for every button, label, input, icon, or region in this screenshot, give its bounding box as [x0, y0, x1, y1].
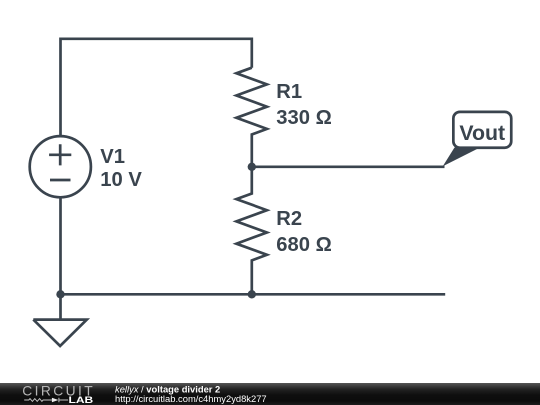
svg-text:10 V: 10 V: [100, 169, 142, 191]
logo circuit glyph: resistor squiggle and diode: [24, 398, 68, 403]
resistor R1 (zigzag): [236, 68, 267, 167]
logo diode triangle: [52, 398, 59, 403]
node junction dot (R2 bottom / rail): [248, 290, 256, 298]
node A junction dot (R1/R2/Vout): [248, 163, 256, 171]
svg-text:R1: R1: [276, 81, 302, 103]
svg-text:V1: V1: [100, 146, 125, 168]
svg-text:680 Ω: 680 Ω: [276, 234, 331, 256]
wire: bottom horizontal rail: [61, 293, 446, 296]
wire: V1 top terminal up, across the top, down to R1: [61, 39, 252, 137]
svg-text:http://circuitlab.com/c4hmy2yd: http://circuitlab.com/c4hmy2yd8k277: [115, 393, 267, 404]
voltage source V1 (circle body): [30, 136, 91, 197]
wire: middle horizontal from node A to Vout flag: [252, 165, 445, 168]
logo word LAB: [69, 395, 94, 405]
footer bar: [0, 383, 540, 405]
ground symbol: [33, 294, 87, 346]
svg-text:330 Ω: 330 Ω: [276, 107, 331, 129]
svg-text:R2: R2: [276, 208, 302, 230]
svg-text:LAB: LAB: [69, 395, 94, 405]
V1 plus sign: [49, 144, 71, 165]
Vout flag pointer tail: [443, 148, 480, 167]
resistor R2 (zigzag): [236, 167, 267, 294]
wire: left vertical from V1 bottom terminal to bottom rail: [59, 197, 62, 294]
node junction dot (V1 bottom / ground): [56, 290, 64, 298]
V1 minus sign: [50, 179, 71, 182]
Vout flag box: [453, 112, 511, 148]
svg-text:Vout: Vout: [459, 121, 505, 145]
